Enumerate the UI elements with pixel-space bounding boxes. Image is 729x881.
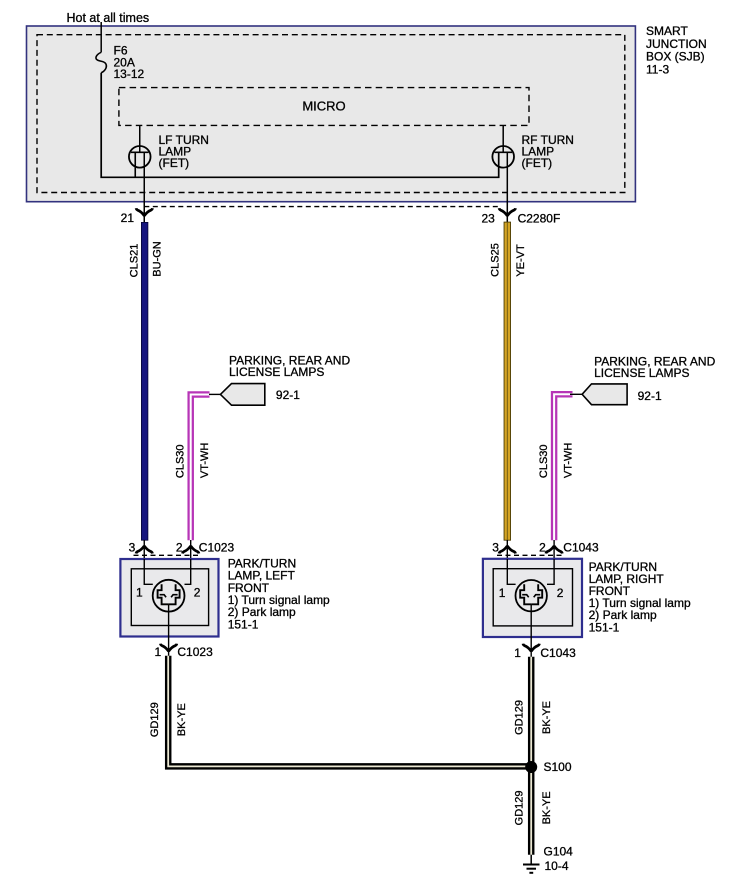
wire RF FET output to pin 23 [506,152,508,222]
wire LF FET left leg to supply bus [134,152,136,177]
connector C2280F dashed line [144,206,499,208]
wire pin3 to bulb left [144,559,153,584]
wire CLS21 BU-GN (LF turn feed) [141,222,148,540]
wire CLS30 VT-WH right (park lamp feed) [554,394,572,540]
svg-text:VT-WH: VT-WH [562,443,574,478]
bulb DS1 left (dual filament) [153,580,185,612]
svg-text:CLS30: CLS30 [538,444,550,478]
connector arrow pin 21 [136,208,152,216]
svg-text:23: 23 [481,211,495,225]
connector C1043 arrow pin 3 [499,546,515,554]
lamp right inner border [493,569,572,626]
connector C1043 arrow pin 2 [546,546,562,554]
svg-text:BK-YE: BK-YE [541,791,553,824]
wire LF FET output to pin 21 [143,152,145,222]
connector C1043 dashed line [497,554,563,556]
wire GD129 BK-YE left ground run [168,656,531,767]
wire into lamp pin 3 right [506,540,508,559]
svg-text:BK-YE: BK-YE [541,701,553,734]
svg-text:1: 1 [514,646,521,660]
wire CLS30 VT-WH left (park lamp feed) [191,395,210,541]
connector C1023 arrow pin 2 [183,546,199,554]
ground G104 [523,855,540,873]
svg-text:92-1: 92-1 [276,388,300,402]
connector arrow pin 23 [499,208,515,216]
svg-text:CLS25: CLS25 [490,243,502,277]
svg-text:C1043: C1043 [540,646,576,660]
svg-text:BK-YE: BK-YE [176,703,188,736]
svg-text:CLS30: CLS30 [175,444,187,478]
svg-text:151-1: 151-1 [589,620,620,634]
wire hot feed down to fuse [100,22,102,52]
svg-text:S100: S100 [544,760,572,774]
svg-text:(FET): (FET) [522,156,553,170]
svg-text:MICRO: MICRO [302,99,345,114]
svg-text:1: 1 [136,586,143,600]
SJB inner dashed border [37,35,625,193]
svg-text:C1023: C1023 [199,540,235,554]
off-page connector flag PARKING, REAR AND LICENSE LAMPS 92-1 right [582,384,627,405]
fuse F6 [96,52,106,72]
wire MICRO gate to LF FET [139,125,141,152]
wire into lamp pin 3 left [143,540,145,559]
splice S100 junction dot [525,761,537,773]
svg-text:GD129: GD129 [514,790,526,825]
svg-text:C1043: C1043 [563,540,599,554]
svg-text:C2280F: C2280F [518,212,561,226]
wire fuse output to supply bus feeding both FETs [101,73,499,178]
smart junction box U1 (SJB) outline [27,26,636,202]
svg-text:LICENSE LAMPS: LICENSE LAMPS [594,366,689,380]
connector C1023 dashed line [134,554,200,556]
off-page connector flag PARKING, REAR AND LICENSE LAMPS 92-1 left [220,384,264,406]
bulb DS2 right (dual filament) [516,580,547,611]
svg-text:BU-GN: BU-GN [152,241,164,277]
wire into lamp pin 2 right [553,540,555,559]
wire stub to off-page flag left [209,393,221,395]
connector C1023 arrow pin 3 [136,546,152,554]
svg-text:LICENSE LAMPS: LICENSE LAMPS [229,365,324,379]
svg-text:151-1: 151-1 [228,617,259,631]
svg-text:1: 1 [155,645,162,659]
wire GD129 BK-YE right upper ground run [528,657,535,767]
wire stub to off-page flag right [570,393,583,395]
svg-text:2: 2 [176,540,183,554]
svg-text:21: 21 [121,211,135,225]
lamp left inner border [131,569,208,626]
connector C1043 bottom arrow pin 1 [523,644,539,652]
wire into lamp pin 2 left [190,540,192,559]
wire pin2 to bulb right [547,559,554,584]
wire bulb to pin1 right [530,604,532,657]
wire pin2 to bulb left [185,559,191,584]
transistor Q1 LF TURN LAMP (FET) [129,146,151,168]
svg-text:G104: G104 [544,845,574,859]
wire MICRO gate to RF FET [502,125,504,152]
wire CLS25 YE-VT (RF turn feed) [504,222,511,540]
svg-text:92-1: 92-1 [638,389,662,403]
wire GD129 BK-YE lower ground run [528,767,535,855]
svg-text:11-3: 11-3 [646,62,669,76]
svg-text:1: 1 [499,586,506,600]
svg-text:GD129: GD129 [149,702,161,737]
transistor Q2 RF TURN LAMP (FET) [492,146,514,168]
svg-text:3: 3 [129,540,136,554]
svg-text:VT-WH: VT-WH [199,443,211,478]
lamp E1 PARK/TURN LAMP LEFT FRONT box [120,559,218,637]
svg-text:2: 2 [539,540,546,554]
svg-text:10-4: 10-4 [545,859,569,873]
svg-text:CLS21: CLS21 [129,244,141,278]
svg-text:YE-VT: YE-VT [515,244,527,277]
svg-text:13-12: 13-12 [114,67,145,81]
connector C1023 bottom arrow pin 1 [160,644,176,652]
MICRO module dashed box [119,88,529,126]
svg-text:2: 2 [194,586,201,600]
svg-text:3: 3 [492,540,499,554]
svg-text:GD129: GD129 [514,700,526,735]
svg-text:Hot at all times: Hot at all times [67,11,150,25]
svg-text:C1023: C1023 [177,645,213,659]
wire pin3 to bulb right [507,559,515,584]
svg-text:(FET): (FET) [159,156,190,170]
wire bulb to pin1 left [168,604,170,656]
svg-text:2: 2 [557,586,564,600]
lamp E2 PARK/TURN LAMP RIGHT FRONT box [483,559,582,637]
